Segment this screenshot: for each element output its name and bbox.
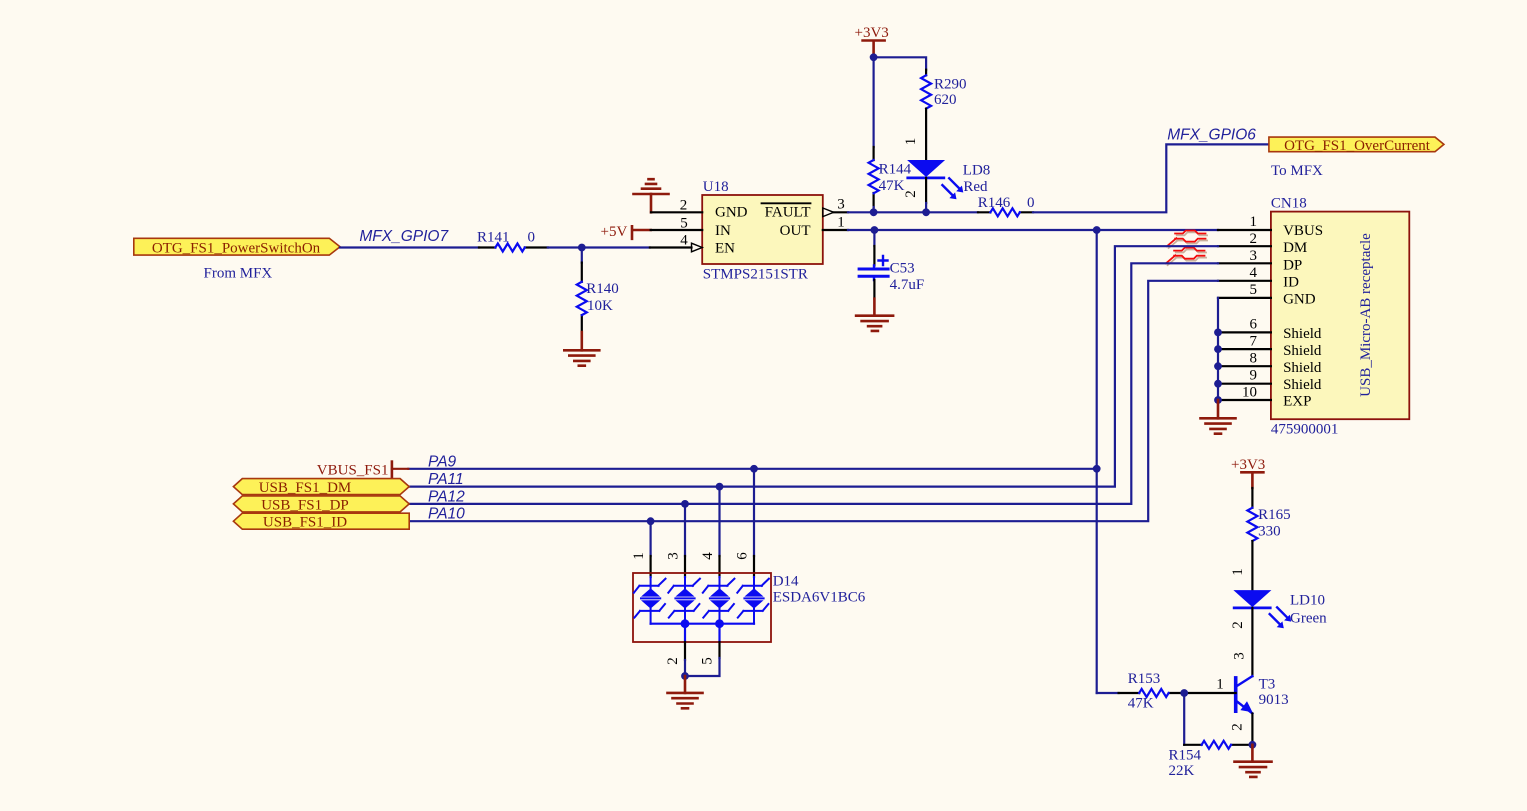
svg-text:From MFX: From MFX (204, 265, 273, 281)
wire base node to T3 (1184, 692, 1236, 694)
svg-text:22K: 22K (1169, 763, 1195, 779)
svg-text:Shield: Shield (1283, 377, 1322, 393)
node PA11/D14 pin4 (716, 483, 724, 491)
svg-text:3: 3 (1232, 652, 1248, 660)
svg-text:EXP: EXP (1283, 394, 1311, 410)
wire DP net (409, 263, 1218, 504)
svg-text:USB_Micro-AB receptacle: USB_Micro-AB receptacle (1358, 233, 1374, 397)
svg-text:MFX_GPIO6: MFX_GPIO6 (1167, 126, 1256, 143)
svg-text:9013: 9013 (1259, 692, 1289, 708)
svg-text:1: 1 (1216, 677, 1224, 693)
svg-text:MFX_GPIO7: MFX_GPIO7 (359, 228, 449, 245)
svg-text:T3: T3 (1259, 676, 1276, 692)
svg-text:2: 2 (665, 657, 681, 665)
power flag +3V3 (top) (855, 25, 889, 58)
svg-text:VBUS_FS1: VBUS_FS1 (317, 462, 389, 478)
svg-text:6: 6 (1250, 317, 1258, 333)
svg-text:OTG_FS1_PowerSwitchOn: OTG_FS1_PowerSwitchOn (152, 241, 321, 257)
resistor R141 (477, 229, 548, 251)
wire LD10 to T3 collector (1251, 608, 1253, 676)
svg-text:ID: ID (1283, 274, 1299, 290)
svg-text:7: 7 (1250, 334, 1258, 350)
wire shield bus (1217, 298, 1219, 400)
svg-text:2: 2 (903, 190, 919, 198)
svg-text:5: 5 (700, 657, 716, 665)
pin 3 wire U18 (FAULT) (823, 208, 834, 217)
svg-text:4: 4 (1250, 265, 1258, 281)
connector CN18 USB_Micro-AB receptacle (1242, 196, 1409, 438)
node LD8/FAULT (922, 208, 930, 216)
pin 9 wire CN18 (1218, 383, 1271, 385)
capacitor C53 (859, 230, 924, 299)
svg-text:10K: 10K (587, 298, 613, 314)
power flag +5V (601, 224, 651, 240)
svg-text:GND: GND (1283, 292, 1316, 308)
resistor R290 (921, 75, 966, 108)
wire node down to R154 (1183, 693, 1185, 745)
wire D14 pin 4 drop (718, 487, 720, 556)
TVS cell 2 in D14 (668, 577, 700, 624)
port USB_FS1_DM (233, 479, 409, 497)
svg-text:3: 3 (837, 197, 845, 213)
pin 7 wire CN18 (1218, 348, 1271, 350)
svg-text:47K: 47K (1128, 696, 1154, 712)
svg-text:1: 1 (631, 552, 647, 560)
svg-text:U18: U18 (703, 179, 729, 195)
node R144/FAULT (870, 208, 878, 216)
wire emitter to node (1251, 714, 1253, 745)
svg-text:EN: EN (715, 241, 735, 257)
node base/R154 (1180, 689, 1188, 697)
svg-text:R165: R165 (1258, 507, 1291, 523)
node PA9/D14 pin6 (750, 465, 758, 473)
TVS cell 4 in D14 (737, 577, 769, 624)
ground under C53 (856, 299, 893, 331)
svg-text:+5V: +5V (601, 224, 628, 240)
power port VBUS_FS1 (317, 462, 409, 480)
svg-text:+3V3: +3V3 (1231, 457, 1265, 473)
port OTG_FS1_PowerSwitchOn (134, 238, 340, 256)
svg-text:R290: R290 (934, 76, 967, 92)
svg-text:R141: R141 (477, 229, 510, 245)
svg-text:USB_FS1_ID: USB_FS1_ID (263, 515, 347, 531)
svg-text:OUT: OUT (780, 223, 811, 239)
svg-text:2: 2 (680, 197, 688, 213)
svg-text:8: 8 (1250, 351, 1258, 367)
svg-text:4.7uF: 4.7uF (890, 277, 925, 293)
LED LD10 (1233, 590, 1327, 628)
pin 2 wire CN18 (1218, 245, 1271, 247)
wire R165 to LD10 (1251, 541, 1253, 590)
node shield pin 9 (1214, 380, 1222, 388)
pin 8 wire CN18 (1218, 365, 1271, 367)
svg-text:CN18: CN18 (1271, 196, 1307, 212)
ground under R140 (564, 332, 599, 366)
svg-text:620: 620 (934, 92, 957, 108)
svg-text:Shield: Shield (1283, 326, 1322, 342)
svg-text:Shield: Shield (1283, 360, 1322, 376)
transistor T3 9013 (1236, 676, 1289, 713)
wire D14 common rail (651, 623, 754, 625)
svg-text:PA12: PA12 (428, 488, 465, 505)
wire +3V3 to R165 (1251, 488, 1253, 508)
node C53 tap (871, 226, 879, 234)
svg-text:STMPS2151STR: STMPS2151STR (703, 266, 808, 282)
wire D14 pin 6 drop (753, 469, 755, 556)
svg-text:DM: DM (1283, 240, 1307, 256)
resistor R144 (869, 147, 912, 207)
pin 1 wire U18 (OUT) (823, 229, 848, 231)
resistor R153 (1119, 671, 1185, 712)
pin 6 wire CN18 (1218, 331, 1271, 333)
wire DM net (409, 246, 1218, 486)
svg-text:5: 5 (1250, 282, 1258, 298)
svg-text:Green: Green (1290, 610, 1327, 626)
ground under T3 (1235, 745, 1272, 777)
LED LD8 (907, 160, 990, 199)
svg-text:LD10: LD10 (1290, 593, 1325, 609)
node EXP pin 10 (1214, 396, 1222, 404)
svg-text:Shield: Shield (1283, 343, 1322, 359)
port OTG_FS1_OverCurrent (1269, 137, 1444, 154)
svg-text:2: 2 (1230, 621, 1246, 629)
wire VBUS vertical (1096, 230, 1098, 693)
svg-text:USB_FS1_DP: USB_FS1_DP (261, 497, 349, 513)
svg-text:1: 1 (1230, 568, 1246, 576)
node +3V3 split (870, 53, 878, 61)
port USB_FS1_ID (233, 513, 409, 531)
svg-text:DP: DP (1283, 257, 1302, 273)
node emitter/R154 (1249, 741, 1257, 749)
wire D14 pin 3 drop (684, 504, 686, 556)
node PA12/D14 pin3 (681, 500, 689, 508)
svg-text:FAULT: FAULT (765, 205, 811, 221)
wire +3V3 to R290 branch (874, 57, 927, 69)
power flag +3V3 (right) (1231, 457, 1265, 488)
node PA9/vertical (1093, 465, 1101, 473)
node VBUS vertical tap (1093, 226, 1101, 234)
ESD array D14 ESDA6V1BC6 (633, 573, 866, 642)
pin 2 wire U18 (651, 211, 702, 213)
node D14 pins 2/5 (681, 672, 689, 680)
svg-text:R154: R154 (1169, 747, 1202, 763)
svg-text:10: 10 (1242, 384, 1257, 400)
svg-text:1: 1 (837, 215, 845, 231)
pin 4 wire U18 (EN) (650, 246, 692, 248)
svg-text:PA9: PA9 (428, 453, 457, 470)
svg-text:330: 330 (1258, 523, 1281, 539)
resistor R146 (978, 195, 1035, 216)
wire tag to R141 (340, 246, 479, 248)
svg-text:LD8: LD8 (963, 163, 991, 179)
node rail pin5 column (715, 619, 724, 628)
svg-text:R146: R146 (978, 195, 1011, 211)
wire R146 to port (1033, 144, 1269, 212)
resistor R154 (1169, 741, 1253, 779)
svg-text:0: 0 (528, 229, 536, 245)
svg-text:6: 6 (735, 552, 751, 560)
node shield pin 6 (1214, 329, 1222, 337)
TVS cell 3 in D14 (703, 577, 735, 624)
resistor R140 (577, 263, 619, 333)
svg-text:ESDA6V1BC6: ESDA6V1BC6 (773, 590, 866, 606)
svg-text:PA10: PA10 (428, 506, 465, 523)
node shield pin 7 (1214, 345, 1222, 353)
wire +3V3 down to R144 (872, 57, 874, 147)
svg-text:R144: R144 (879, 162, 912, 178)
wire R141 to EN (548, 246, 650, 248)
IC U18 STMPS2151STR (680, 179, 845, 282)
ground under D14 (668, 676, 703, 708)
differential pair marker on DM (1167, 231, 1207, 249)
svg-text:9: 9 (1250, 368, 1258, 384)
svg-text:R153: R153 (1128, 671, 1161, 687)
svg-text:C53: C53 (890, 260, 915, 276)
svg-text:47K: 47K (879, 178, 905, 194)
wire D14 pin 5 (718, 624, 720, 642)
pin 5 wire CN18 (1218, 297, 1271, 299)
svg-text:2: 2 (1250, 231, 1258, 247)
wire R290 to LD8 (925, 109, 927, 160)
wire ID net (409, 281, 1218, 521)
wire VBUS to R153 (1097, 692, 1119, 694)
svg-text:VBUS: VBUS (1283, 223, 1323, 239)
svg-text:2: 2 (1230, 723, 1246, 731)
pin 3 wire CN18 (1218, 262, 1271, 264)
port USB_FS1_DP (233, 496, 409, 514)
svg-text:PA11: PA11 (428, 471, 464, 488)
svg-text:3: 3 (1250, 248, 1258, 264)
svg-text:R140: R140 (586, 281, 619, 297)
resistor R165 (1247, 507, 1290, 541)
svg-text:4: 4 (680, 233, 688, 249)
svg-text:OTG_FS1_OverCurrent: OTG_FS1_OverCurrent (1284, 138, 1431, 154)
pin 5 wire U18 (651, 229, 703, 231)
svg-text:USB_FS1_DM: USB_FS1_DM (259, 480, 352, 496)
svg-text:To MFX: To MFX (1271, 163, 1323, 179)
wire FAULT net (848, 211, 978, 213)
pin 1 wire CN18 (1218, 229, 1271, 231)
svg-text:IN: IN (715, 223, 731, 239)
pin 10 wire CN18 (1218, 399, 1271, 401)
wire junction down (581, 248, 583, 263)
pin 4 wire CN18 (1218, 280, 1271, 282)
TVS cell 1 in D14 (634, 577, 666, 624)
wire LD8 to FAULT net (925, 178, 927, 203)
svg-text:0: 0 (1027, 195, 1035, 211)
svg-text:3: 3 (666, 552, 682, 560)
svg-text:1: 1 (903, 138, 919, 146)
wire PA9 row (408, 468, 1096, 470)
svg-text:D14: D14 (773, 574, 799, 590)
svg-text:Red: Red (963, 179, 988, 195)
node rail pin2 column (681, 619, 690, 628)
svg-text:+3V3: +3V3 (855, 25, 889, 41)
node junction R140 tap (578, 244, 586, 252)
wire D14 pin 2 (684, 624, 686, 642)
svg-text:1: 1 (1250, 214, 1258, 230)
ground at U18 pin 2 (inverted) (634, 179, 669, 212)
ground at CN18 shield (1201, 400, 1236, 434)
svg-text:475900001: 475900001 (1271, 422, 1339, 438)
node PA10/D14 pin1 (647, 517, 655, 525)
svg-text:GND: GND (715, 205, 748, 221)
svg-text:4: 4 (700, 552, 716, 560)
differential pair marker on DP (1166, 248, 1206, 266)
wire OUT net (848, 229, 1218, 231)
wire D14 pin 1 drop (649, 521, 651, 556)
node shield pin 8 (1214, 362, 1222, 370)
